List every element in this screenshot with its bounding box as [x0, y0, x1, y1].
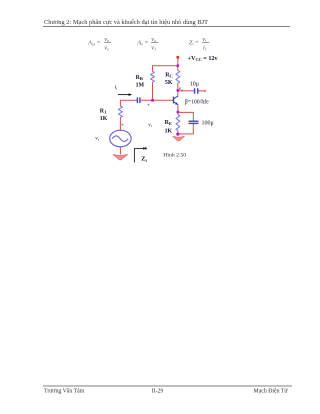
- svg-text:vs: vs: [104, 44, 109, 51]
- svg-text:Zi =: Zi =: [189, 40, 199, 47]
- svg-text:R1: R1: [100, 109, 107, 115]
- svg-text:5K: 5K: [165, 80, 173, 86]
- svg-text:Trương Văn Tám: Trương Văn Tám: [44, 388, 85, 394]
- svg-text:vo: vo: [179, 86, 183, 92]
- svg-text:Av =: Av =: [136, 40, 148, 47]
- svg-text:vi: vi: [202, 36, 206, 43]
- svg-text:Avs =: Avs =: [87, 40, 101, 47]
- svg-text:+VCC = 12v: +VCC = 12v: [188, 55, 219, 62]
- svg-text:100μ: 100μ: [202, 121, 214, 127]
- svg-text:+: +: [147, 102, 150, 108]
- svg-text:1K: 1K: [100, 116, 108, 122]
- svg-text:1K: 1K: [165, 129, 173, 135]
- svg-text:vo: vo: [104, 36, 109, 43]
- svg-text:Zi: Zi: [141, 156, 147, 163]
- svg-text:RB: RB: [136, 75, 143, 81]
- svg-text:1M: 1M: [136, 82, 145, 88]
- svg-text:vi: vi: [148, 122, 151, 128]
- svg-text:RC: RC: [165, 73, 173, 79]
- svg-text:β=100/hfe: β=100/hfe: [185, 99, 209, 106]
- svg-text:Mạch Điện Tử: Mạch Điện Tử: [254, 388, 289, 394]
- svg-text:+: +: [121, 122, 124, 128]
- svg-text:Hình 2.50: Hình 2.50: [163, 152, 186, 158]
- svg-text:i1: i1: [203, 44, 207, 51]
- svg-text:vs: vs: [95, 135, 99, 141]
- svg-text:II-29: II-29: [152, 388, 164, 394]
- svg-text:Chương 2: Mạch phân cực và khu: Chương 2: Mạch phân cực và khuếch đại tí…: [44, 19, 208, 26]
- svg-text:10μ: 10μ: [190, 82, 199, 88]
- svg-text:ii: ii: [115, 84, 118, 90]
- svg-text:RE: RE: [165, 120, 172, 126]
- svg-text:': ': [149, 145, 150, 150]
- svg-text:v1: v1: [151, 44, 156, 51]
- svg-text:vo: vo: [151, 36, 156, 43]
